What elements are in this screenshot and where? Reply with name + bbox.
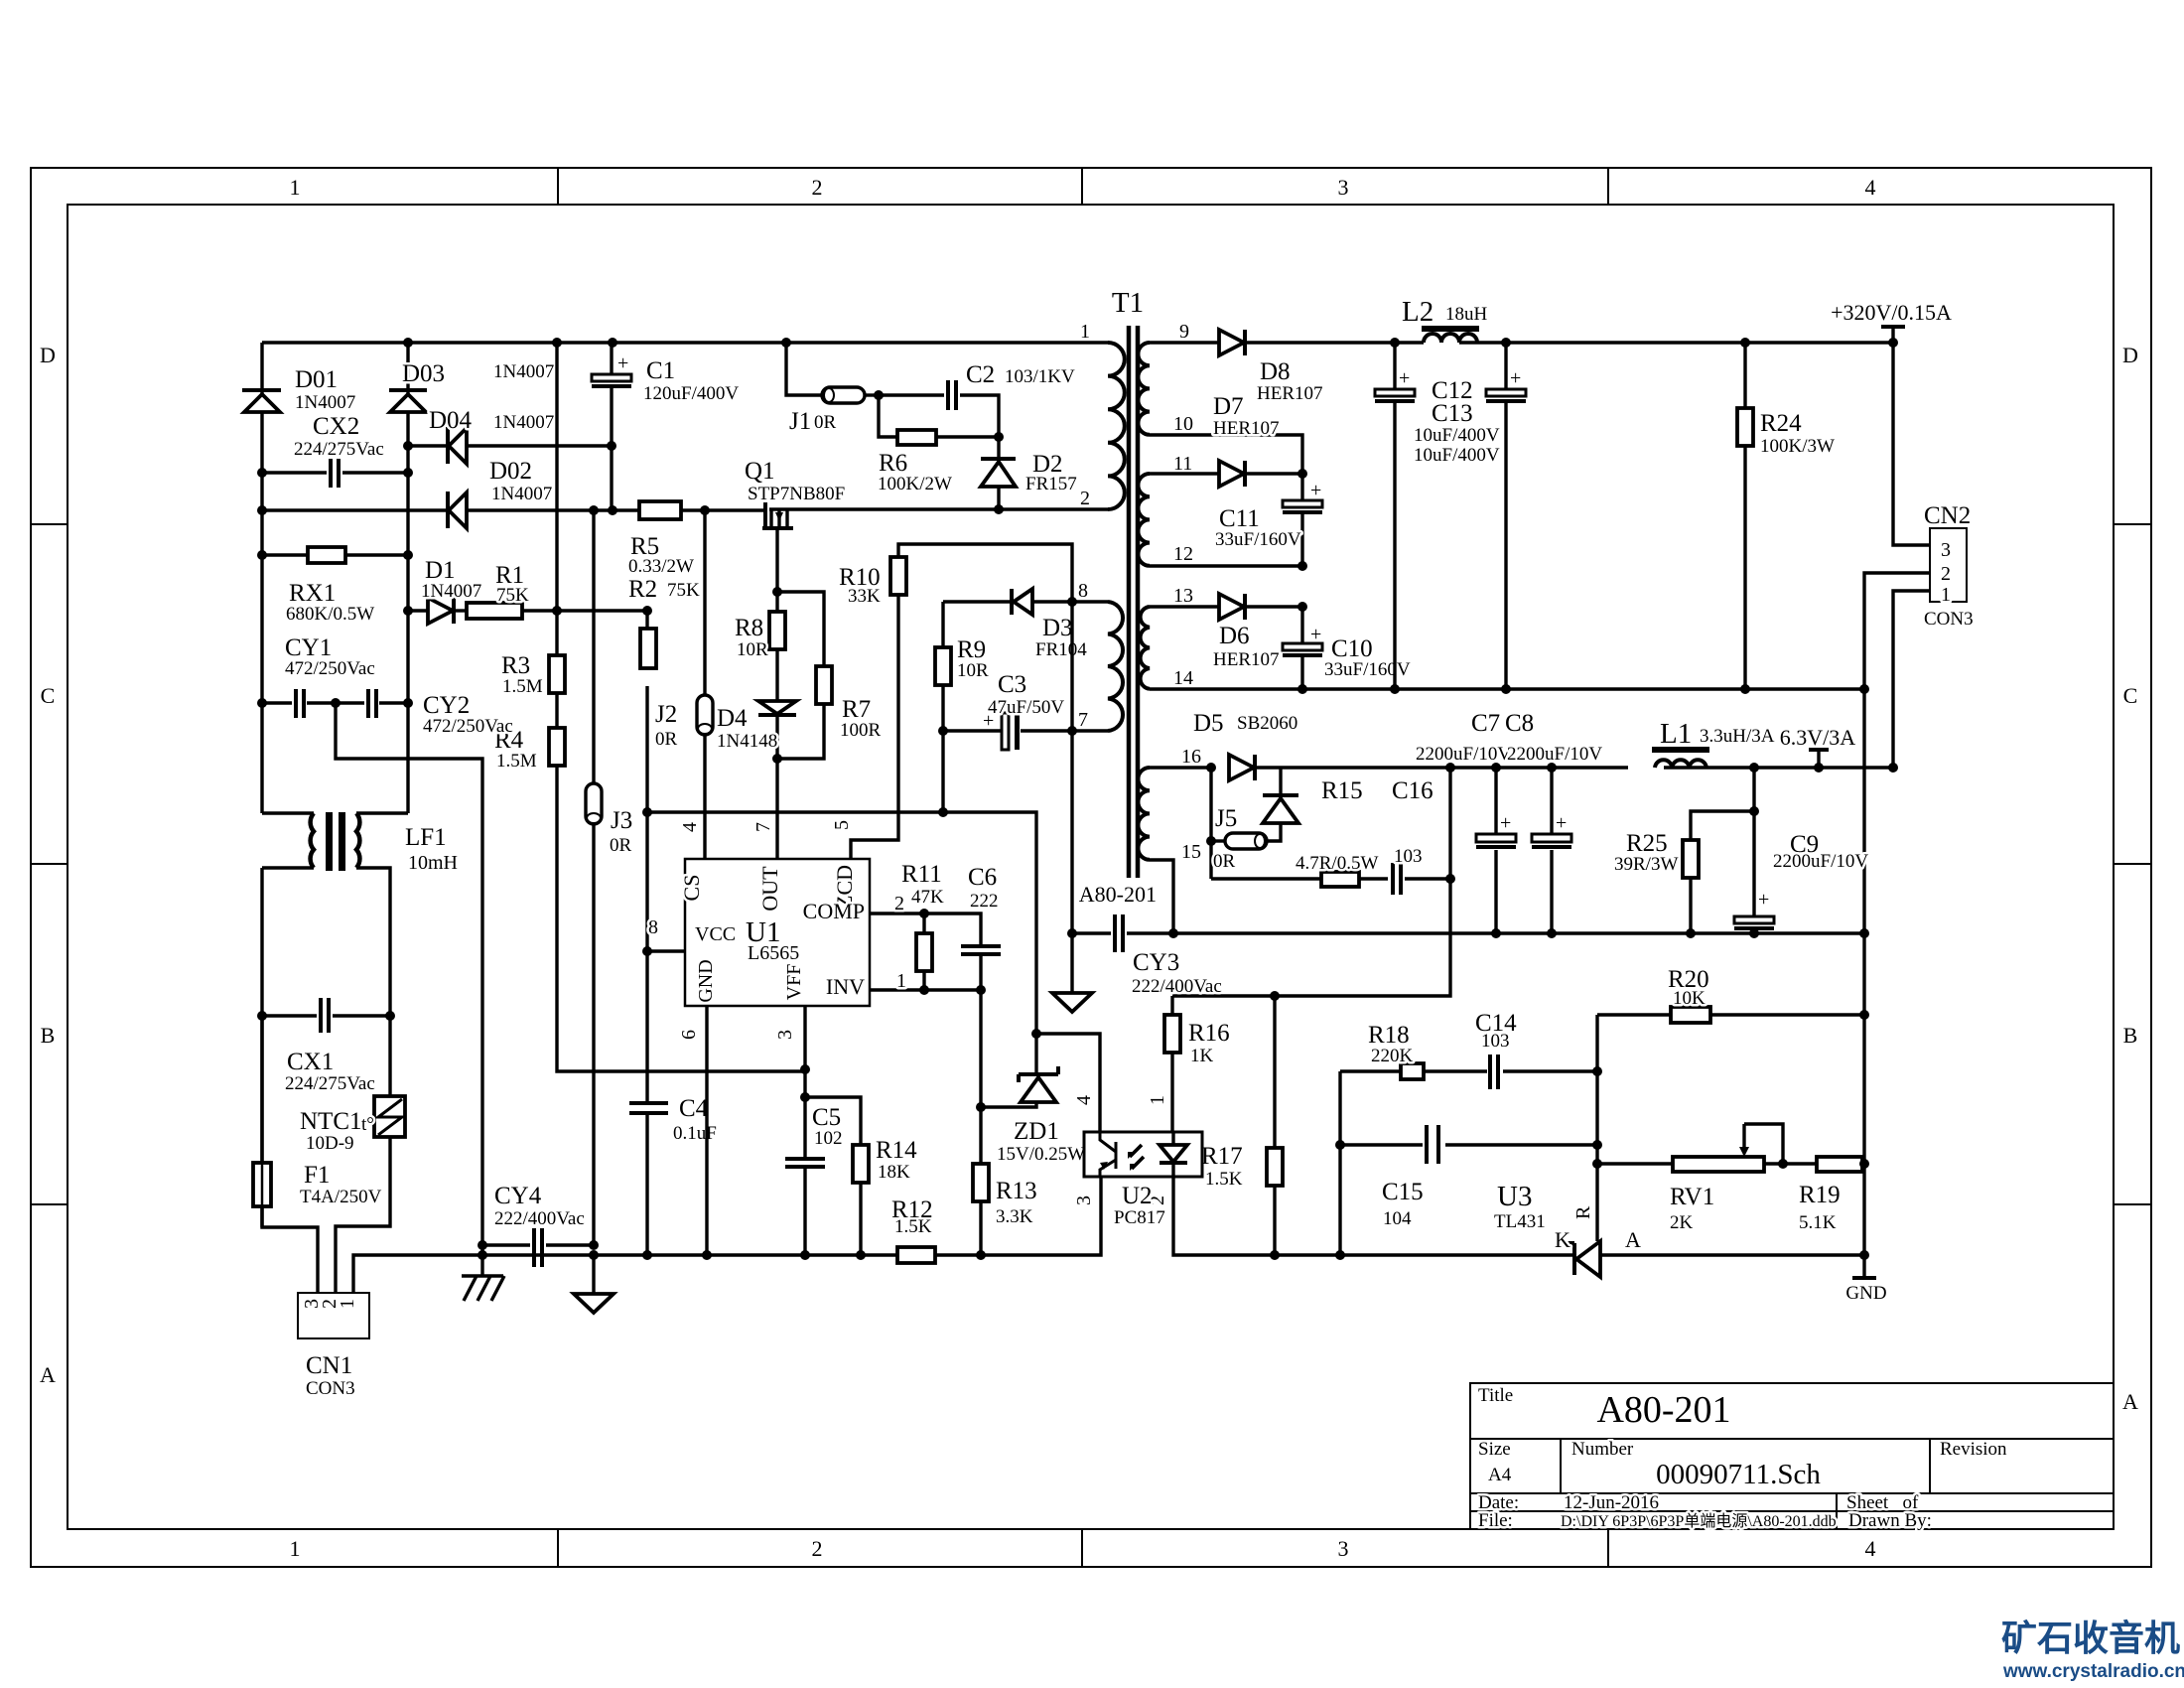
wire: R16 feed branch x1461 <box>1172 768 1450 996</box>
svg-text:Drawn By:: Drawn By: <box>1848 1510 1932 1531</box>
wire: R5 to Q1 gate <box>681 508 763 511</box>
svg-text:4: 4 <box>1865 175 1876 200</box>
wire: CN2 pin3 lead <box>1893 343 1930 545</box>
svg-text:39R/3W: 39R/3W <box>1614 854 1678 875</box>
svg-text:222: 222 <box>970 891 999 912</box>
svg-text:7: 7 <box>752 822 774 832</box>
svg-text:472/250Vac: 472/250Vac <box>285 658 375 679</box>
capacitor C5 <box>785 1104 843 1255</box>
svg-text:1.5M: 1.5M <box>502 676 543 697</box>
capacitor C13 <box>1414 343 1526 689</box>
svg-text:CY1: CY1 <box>285 634 332 661</box>
svg-text:A: A <box>40 1362 56 1387</box>
wire: R2/C4/VCC branch x652 <box>645 611 648 1255</box>
diode D3 <box>943 589 1108 660</box>
svg-text:A80-201: A80-201 <box>1596 1389 1730 1431</box>
svg-text:R13: R13 <box>996 1178 1037 1204</box>
svg-text:1N4007: 1N4007 <box>491 484 552 504</box>
ground flag GND <box>1845 1278 1886 1304</box>
wire: 320V rail <box>1395 341 1893 344</box>
svg-text:R17: R17 <box>1201 1143 1243 1170</box>
wire: AC line A vertical x264 <box>262 343 318 1293</box>
svg-text:CY4: CY4 <box>494 1183 542 1209</box>
svg-text:472/250Vac: 472/250Vac <box>423 716 513 737</box>
svg-text:T1: T1 <box>1112 287 1144 319</box>
wire: D02 row / negative rail to R5 <box>262 508 639 511</box>
wire: top positive rail <box>262 341 1108 344</box>
svg-text:C10: C10 <box>1331 635 1373 662</box>
resistor R8 <box>735 612 785 660</box>
wire: snubber J1 branch <box>786 343 879 395</box>
svg-text:ZD1: ZD1 <box>1014 1118 1059 1145</box>
resistor R5 <box>628 501 694 577</box>
svg-text:0R: 0R <box>655 729 678 750</box>
svg-text:C2: C2 <box>966 361 995 388</box>
svg-text:TL431: TL431 <box>1494 1211 1546 1232</box>
resistor R19 <box>1799 1157 1862 1233</box>
svg-text:12: 12 <box>1173 543 1193 565</box>
svg-text:D8: D8 <box>1260 358 1291 385</box>
svg-text:COMP: COMP <box>803 899 865 923</box>
wire: U1 VFF pin3 lead <box>803 1006 806 1159</box>
wire: INV node down to R13 <box>979 990 982 1164</box>
svg-text:A4: A4 <box>1488 1465 1512 1485</box>
winding T1 sec 9-10 <box>1138 321 1193 435</box>
svg-text:4: 4 <box>1073 1095 1095 1105</box>
power flag 6.3V <box>1780 725 1856 768</box>
svg-text:CS: CS <box>679 875 704 902</box>
resistor R20 <box>1597 966 1864 1023</box>
svg-text:D4: D4 <box>717 705 748 732</box>
wire: D04 row <box>408 444 613 447</box>
svg-text:100K/3W: 100K/3W <box>1760 436 1835 457</box>
svg-text:2200uF/10V: 2200uF/10V <box>1773 851 1868 872</box>
capacitor CY3 <box>1072 914 1222 997</box>
resistor R13 <box>973 1164 1037 1255</box>
svg-text:2200uF/10V: 2200uF/10V <box>1507 744 1602 765</box>
svg-text:8: 8 <box>648 916 658 938</box>
svg-text:R16: R16 <box>1188 1020 1230 1047</box>
winding T1 primary 1-2 <box>1080 321 1125 509</box>
svg-text:Number: Number <box>1571 1439 1634 1460</box>
svg-text:L6565: L6565 <box>748 942 799 964</box>
wire: J3 branch x598 <box>592 510 595 1245</box>
capacitor C12 <box>1375 343 1415 689</box>
svg-text:C3: C3 <box>998 671 1026 698</box>
wire: ZD1 node to U2 pin4 <box>1036 1034 1100 1132</box>
svg-text:R8: R8 <box>735 615 763 641</box>
svg-text:J2: J2 <box>655 701 677 728</box>
resistor R18 <box>1340 1022 1487 1079</box>
svg-text:J3: J3 <box>611 807 632 834</box>
svg-text:SB2060: SB2060 <box>1237 713 1297 734</box>
svg-text:GND: GND <box>1845 1283 1886 1304</box>
svg-text:2: 2 <box>1941 563 1951 585</box>
svg-text:1: 1 <box>896 970 906 992</box>
svg-text:VFF: VFF <box>783 964 805 1001</box>
svg-text:15: 15 <box>1181 841 1201 863</box>
svg-text:FR157: FR157 <box>1025 474 1077 494</box>
svg-text:1: 1 <box>1941 584 1951 606</box>
capacitor C8 <box>1505 710 1602 933</box>
svg-text:www.crystalradio.cn: www.crystalradio.cn <box>2002 1661 2184 1682</box>
svg-text:C: C <box>41 683 56 708</box>
svg-text:VCC: VCC <box>695 923 736 945</box>
wire: CN2 pin1 6.3V lead <box>1893 591 1930 768</box>
svg-text:INV: INV <box>826 974 865 999</box>
capacitor C4 <box>629 1095 717 1144</box>
svg-text:C5: C5 <box>812 1104 841 1131</box>
wire: secondary ground rail y940 <box>1173 931 1864 934</box>
resistor R17 <box>1201 996 1283 1255</box>
svg-text:4: 4 <box>1865 1536 1876 1561</box>
svg-text:D:\DIY 6P3P\6P3P单端电源\A80-201.d: D:\DIY 6P3P\6P3P单端电源\A80-201.ddb <box>1561 1512 1837 1530</box>
svg-text:HER107: HER107 <box>1213 418 1280 439</box>
jumper J2 <box>655 510 713 859</box>
svg-text:File:: File: <box>1478 1510 1513 1531</box>
diode D6 <box>1213 594 1280 670</box>
wire: primary ground rail y1264 <box>482 1177 1101 1255</box>
junction dots U1 area <box>642 390 1077 1260</box>
jumper J5 <box>1211 768 1267 879</box>
svg-text:A: A <box>2122 1389 2138 1414</box>
svg-text:D02: D02 <box>489 458 532 485</box>
svg-text:Size: Size <box>1478 1439 1511 1460</box>
capacitor C16 <box>1392 777 1450 895</box>
svg-text:102: 102 <box>814 1128 843 1149</box>
svg-text:D5: D5 <box>1193 710 1224 737</box>
winding T1 sec 13-14 <box>1141 585 1193 689</box>
svg-text:7: 7 <box>1078 709 1088 731</box>
wire: CY midpoint to chassis x486 <box>336 703 482 1276</box>
svg-text:CY3: CY3 <box>1133 949 1179 976</box>
svg-text:HER107: HER107 <box>1213 649 1280 670</box>
svg-text:D03: D03 <box>402 360 445 387</box>
svg-text:STP7NB80F: STP7NB80F <box>748 484 845 504</box>
svg-text:CX2: CX2 <box>313 413 359 440</box>
svg-text:103: 103 <box>1481 1031 1510 1052</box>
svg-text:1.5K: 1.5K <box>1205 1169 1243 1190</box>
svg-text:D3: D3 <box>1042 615 1073 641</box>
ground triangle aux <box>1052 933 1092 1012</box>
svg-text:75K: 75K <box>496 585 529 606</box>
connector CN1 <box>298 1293 369 1399</box>
wire: D1/R1 row <box>408 609 647 612</box>
svg-text:2: 2 <box>1080 488 1090 509</box>
wire: pin13 row <box>1150 605 1302 608</box>
svg-text:224/275Vac: 224/275Vac <box>294 439 384 460</box>
svg-text:103/1KV: 103/1KV <box>1005 366 1075 387</box>
svg-text:R14: R14 <box>876 1137 917 1164</box>
capacitor CY2 <box>336 689 513 737</box>
wire: INV row <box>870 988 981 991</box>
svg-text:120uF/400V: 120uF/400V <box>643 383 739 404</box>
svg-text:1.5K: 1.5K <box>894 1216 932 1237</box>
svg-text:2K: 2K <box>1670 1212 1694 1233</box>
svg-text:33uF/160V: 33uF/160V <box>1324 659 1411 680</box>
wire: CN1 pin1 to ground rail <box>353 1255 482 1293</box>
svg-text:3.3uH/3A: 3.3uH/3A <box>1700 726 1775 747</box>
svg-text:RX1: RX1 <box>289 580 336 607</box>
svg-text:C: C <box>2123 683 2138 708</box>
svg-text:D04: D04 <box>429 407 473 434</box>
capacitor C9 <box>1734 811 1868 933</box>
svg-text:R6: R6 <box>879 450 907 477</box>
svg-text:T4A/250V: T4A/250V <box>300 1187 382 1207</box>
svg-text:R: R <box>1572 1205 1594 1219</box>
svg-text:00090711.Sch: 00090711.Sch <box>1656 1459 1821 1490</box>
svg-text:10R: 10R <box>737 639 768 660</box>
shunt regulator U3 TL431 <box>1494 1181 1641 1277</box>
svg-text:103: 103 <box>1394 846 1423 867</box>
svg-text:PC817: PC817 <box>1114 1207 1165 1228</box>
diode D5 <box>1193 710 1297 780</box>
svg-text:16: 16 <box>1181 746 1201 768</box>
transformer T1 core <box>1079 287 1157 907</box>
svg-text:18K: 18K <box>878 1162 910 1183</box>
svg-text:15V/0.25W: 15V/0.25W <box>997 1144 1085 1165</box>
svg-text:47uF/50V: 47uF/50V <box>988 697 1064 718</box>
svg-text:K: K <box>1555 1227 1570 1252</box>
svg-text:D6: D6 <box>1219 623 1250 649</box>
zener ZD1 <box>942 812 1085 1165</box>
capacitor C6 <box>961 864 1001 990</box>
svg-text:F1: F1 <box>304 1162 330 1189</box>
resistor R7 <box>777 592 882 759</box>
svg-text:33uF/160V: 33uF/160V <box>1215 529 1301 550</box>
wire: TL431 ref column x1609 <box>1595 1015 1598 1241</box>
svg-text:D01: D01 <box>295 366 338 393</box>
svg-text:HER107: HER107 <box>1257 383 1323 404</box>
svg-text:75K: 75K <box>667 580 700 601</box>
wire: pin12 return <box>1150 564 1302 567</box>
svg-text:A80-201: A80-201 <box>1079 882 1157 907</box>
diode D01 <box>242 366 355 413</box>
svg-text:3: 3 <box>1338 1536 1349 1561</box>
wire: pin14 ground return row <box>1150 687 1864 690</box>
wire: divider feed x561 from + rail <box>557 343 805 1071</box>
svg-text:C4: C4 <box>679 1095 709 1122</box>
svg-text:14: 14 <box>1173 667 1193 689</box>
capacitor C15 <box>1340 1125 1597 1229</box>
capacitor C2 <box>879 361 1075 437</box>
svg-text:C1: C1 <box>646 357 675 384</box>
svg-text:10uF/400V: 10uF/400V <box>1414 445 1500 466</box>
svg-text:6.3V/3A: 6.3V/3A <box>1780 725 1856 750</box>
svg-text:222/400Vac: 222/400Vac <box>494 1208 585 1229</box>
svg-text:1: 1 <box>290 175 301 200</box>
resistor R4 <box>494 727 565 772</box>
diode D2 <box>981 437 1077 509</box>
svg-text:1: 1 <box>337 1299 358 1309</box>
svg-text:+: + <box>617 352 628 374</box>
wire: CN2 pin2 ground lead <box>1864 573 1930 1278</box>
svg-text:10mH: 10mH <box>408 852 458 874</box>
chassis earth symbol <box>462 1276 504 1301</box>
svg-text:+: + <box>1758 889 1769 911</box>
svg-text:10: 10 <box>1173 413 1193 435</box>
svg-text:220K: 220K <box>1371 1046 1414 1066</box>
resistor R16 <box>1164 996 1230 1132</box>
svg-text:D1: D1 <box>425 557 456 584</box>
wire: T1 pin2 drain row <box>769 507 1108 510</box>
svg-text:47K: 47K <box>911 887 944 908</box>
diode D04 <box>429 407 554 464</box>
svg-text:+: + <box>1510 367 1521 389</box>
svg-text:CX1: CX1 <box>287 1049 334 1075</box>
svg-text:C8: C8 <box>1505 710 1534 737</box>
power flag +320V <box>1831 300 1952 343</box>
svg-text:0.33/2W: 0.33/2W <box>628 556 694 577</box>
svg-text:5.1K: 5.1K <box>1799 1212 1837 1233</box>
svg-text:C7: C7 <box>1471 710 1500 737</box>
svg-text:10D-9: 10D-9 <box>306 1133 354 1154</box>
wire: AC line B vertical x411 <box>406 343 409 813</box>
svg-text:680K/0.5W: 680K/0.5W <box>286 604 374 625</box>
inductor L2 <box>1402 296 1488 343</box>
capacitor C3 <box>943 671 1072 812</box>
svg-text:B: B <box>2123 1023 2138 1048</box>
wire: aux return pin7 x1080 <box>1072 602 1108 933</box>
svg-text:11: 11 <box>1173 453 1192 475</box>
diode D02 <box>448 458 552 528</box>
svg-text:1N4007: 1N4007 <box>493 361 554 382</box>
svg-text:3: 3 <box>1941 539 1951 561</box>
capacitor CX2 <box>262 413 408 488</box>
wire: U1 GND pin6 lead <box>705 1006 708 1255</box>
svg-text:0.1uF: 0.1uF <box>673 1123 717 1144</box>
wire: COMP row <box>870 914 981 946</box>
svg-text:3: 3 <box>774 1030 796 1040</box>
watermark crystalradio <box>2001 1618 2184 1682</box>
wire: pin15 return <box>1150 860 1173 933</box>
IC U1 L6565 <box>648 820 870 1040</box>
title block <box>1470 1383 2114 1531</box>
diode D4 <box>717 701 796 752</box>
svg-text:C6: C6 <box>968 864 997 891</box>
wire: U1 VCC pin8 stub <box>647 949 685 952</box>
resistor R15 <box>1211 777 1388 887</box>
resistor R14 <box>805 1097 917 1255</box>
capacitor C10 <box>1283 607 1411 689</box>
diode D7 <box>1213 393 1280 487</box>
svg-text:R24: R24 <box>1760 410 1802 437</box>
diode D1 <box>421 557 481 624</box>
svg-text:CON3: CON3 <box>1924 609 1974 630</box>
potentiometer RV1 <box>1597 1124 1817 1233</box>
svg-text:LF1: LF1 <box>405 824 447 851</box>
svg-text:FR104: FR104 <box>1035 639 1087 660</box>
resistor R12 <box>891 1196 935 1263</box>
svg-text:224/275Vac: 224/275Vac <box>285 1073 375 1094</box>
svg-text:C11: C11 <box>1219 505 1260 532</box>
svg-text:t°: t° <box>361 1114 374 1135</box>
fuse F1 <box>253 1016 382 1227</box>
svg-text:CN2: CN2 <box>1924 502 1971 529</box>
svg-text:0R: 0R <box>610 835 632 856</box>
svg-text:18uH: 18uH <box>1445 304 1488 325</box>
winding T1 aux 8-7 <box>1078 580 1123 731</box>
svg-text:+: + <box>1500 812 1511 834</box>
svg-text:33K: 33K <box>848 586 881 607</box>
wire: R18 left drop <box>1338 1071 1341 1255</box>
svg-text:2: 2 <box>812 175 823 200</box>
svg-text:D7: D7 <box>1213 393 1244 420</box>
svg-text:2: 2 <box>894 893 904 914</box>
resistor R25 <box>1614 768 1754 933</box>
svg-text:R15: R15 <box>1321 777 1363 804</box>
resistor R2 <box>628 576 700 668</box>
ground triangle primary <box>574 1255 614 1313</box>
svg-text:R9: R9 <box>957 636 986 663</box>
svg-text:1: 1 <box>1080 321 1090 343</box>
jumper J1 <box>789 387 865 435</box>
wire: VCC supply row y818 <box>647 810 943 813</box>
resistor R24 <box>1737 343 1835 689</box>
svg-text:2: 2 <box>812 1536 823 1561</box>
resistor R3 <box>501 652 565 697</box>
capacitor C14 <box>1475 1010 1597 1089</box>
junction dots secondary <box>1168 338 1898 938</box>
winding T1 sec 11-12 <box>1138 453 1193 566</box>
svg-text:Q1: Q1 <box>745 458 775 485</box>
svg-text:C13: C13 <box>1432 400 1473 427</box>
svg-text:R18: R18 <box>1368 1022 1410 1049</box>
svg-text:J1: J1 <box>789 408 811 435</box>
svg-text:J5: J5 <box>1215 805 1237 832</box>
wire: pin9 row <box>1150 341 1395 344</box>
junction dots bottom right <box>1270 991 1869 1260</box>
svg-text:1: 1 <box>1147 1095 1168 1105</box>
svg-text:R3: R3 <box>501 652 530 679</box>
transistor Q1 <box>745 458 845 528</box>
resistor R1 <box>467 562 529 619</box>
diode D03 <box>389 360 554 412</box>
svg-text:4: 4 <box>679 822 701 832</box>
svg-text:R19: R19 <box>1799 1182 1841 1208</box>
svg-text:CY2: CY2 <box>423 692 470 719</box>
svg-text:C15: C15 <box>1382 1179 1424 1205</box>
svg-text:Revision: Revision <box>1940 1439 2007 1460</box>
svg-text:2200uF/10V: 2200uF/10V <box>1416 744 1511 765</box>
svg-text:+320V/0.15A: +320V/0.15A <box>1831 300 1952 325</box>
svg-text:D: D <box>40 343 56 367</box>
svg-text:0R: 0R <box>1213 851 1236 872</box>
wire: pin11 row <box>1150 472 1302 475</box>
svg-text:U2: U2 <box>1122 1183 1153 1209</box>
svg-text:+: + <box>1399 367 1410 389</box>
svg-text:0R: 0R <box>814 412 837 433</box>
svg-text:R25: R25 <box>1626 830 1668 857</box>
wire: U2 pin2 secondary ground row <box>1173 1177 1864 1255</box>
svg-text:10uF/400V: 10uF/400V <box>1414 425 1500 446</box>
svg-text:NTC1: NTC1 <box>300 1108 362 1135</box>
capacitor C7 <box>1416 710 1516 933</box>
svg-text:A: A <box>1625 1227 1641 1252</box>
thermistor NTC1 <box>300 1016 405 1293</box>
resistor R10 <box>839 544 1072 859</box>
svg-text:3: 3 <box>1073 1196 1095 1205</box>
svg-text:L2: L2 <box>1402 296 1433 328</box>
svg-text:1N4148: 1N4148 <box>717 731 777 752</box>
capacitor C1 <box>592 343 739 510</box>
svg-text:13: 13 <box>1173 585 1193 607</box>
svg-text:L1: L1 <box>1660 718 1692 750</box>
wire: 6.3V output rail <box>1150 766 1893 769</box>
svg-text:5: 5 <box>831 820 853 830</box>
wire: pin10 return <box>1150 435 1302 474</box>
capacitor CX1 <box>262 998 390 1094</box>
